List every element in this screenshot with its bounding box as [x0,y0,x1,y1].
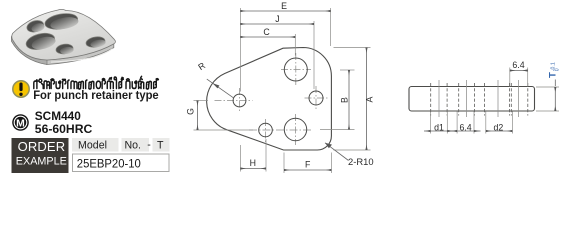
dimension 6.4 top [510,70,528,72]
svg-text:E: E [281,1,287,11]
svg-text:T: T [157,139,164,151]
model header cells [72,138,119,152]
dimension A [366,48,368,151]
hidden hole lines [431,83,528,116]
hole bottom small [259,123,273,137]
svg-text:B: B [340,97,350,103]
material icon M [12,114,29,131]
dimension F [284,169,331,171]
hole bottom big [284,118,306,140]
dimension G [197,101,199,131]
svg-text:d1: d1 [434,123,444,133]
svg-text:C: C [263,27,270,37]
dimension H [240,168,266,170]
dimension B [348,70,350,130]
svg-text:R: R [196,60,207,72]
svg-text:F: F [305,159,311,169]
leader R [207,79,234,98]
svg-text:EXAMPLE: EXAMPLE [16,156,67,168]
isometric plate side band [11,37,113,65]
svg-text:-: - [147,139,151,151]
svg-text:T: T [548,72,559,78]
svg-text:SCM440: SCM440 [35,109,81,123]
svg-text:For punch retainer type: For punch retainer type [33,88,159,102]
isometric plate top face [12,9,116,60]
svg-text:Model: Model [78,139,107,151]
centerlines [215,53,329,145]
svg-text:ORDER: ORDER [18,139,66,154]
dimension d2 [486,130,513,132]
svg-text:d2: d2 [494,123,504,133]
dimension E [240,10,330,12]
svg-text:H: H [250,158,256,168]
warning icon [13,81,29,97]
svg-text:G: G [186,108,196,115]
dimension 6.4 bottom [457,130,474,132]
side view body [409,87,535,112]
model value cell [73,154,170,172]
iso hole left small [26,19,46,35]
svg-text:6.4: 6.4 [512,60,524,70]
dimension J [240,23,314,25]
svg-text:25EBP20-10: 25EBP20-10 [77,156,141,170]
svg-text:56-60HRC: 56-60HRC [35,122,93,136]
iso hole right small [85,35,106,49]
order example block [12,138,69,173]
svg-text:6.4: 6.4 [459,123,471,133]
iso hole top big [44,11,80,32]
svg-text:J: J [275,14,279,24]
isometric plate side band left darker [11,37,47,65]
dimension T [554,80,556,87]
iso hole left big [24,31,56,53]
svg-text:0: 0 [555,68,561,71]
hole left small [233,94,246,107]
hole centerlines [439,80,519,117]
extension lines [194,8,371,173]
hole top big [284,58,307,81]
plate outline front view [207,48,332,151]
iso hole centre small [55,43,74,55]
leader 2-R10 [325,143,349,161]
dimension C [240,36,295,38]
thai caption (approximated glyph strokes) [34,76,159,89]
dimension d1 [431,130,448,132]
svg-text:A: A [365,96,375,102]
svg-text:2-R10: 2-R10 [348,156,374,167]
side extension lines [431,68,560,134]
isometric side highlight [51,49,113,62]
svg-text:M: M [16,119,25,130]
hole right small [309,91,323,105]
svg-text:No.: No. [125,139,142,151]
